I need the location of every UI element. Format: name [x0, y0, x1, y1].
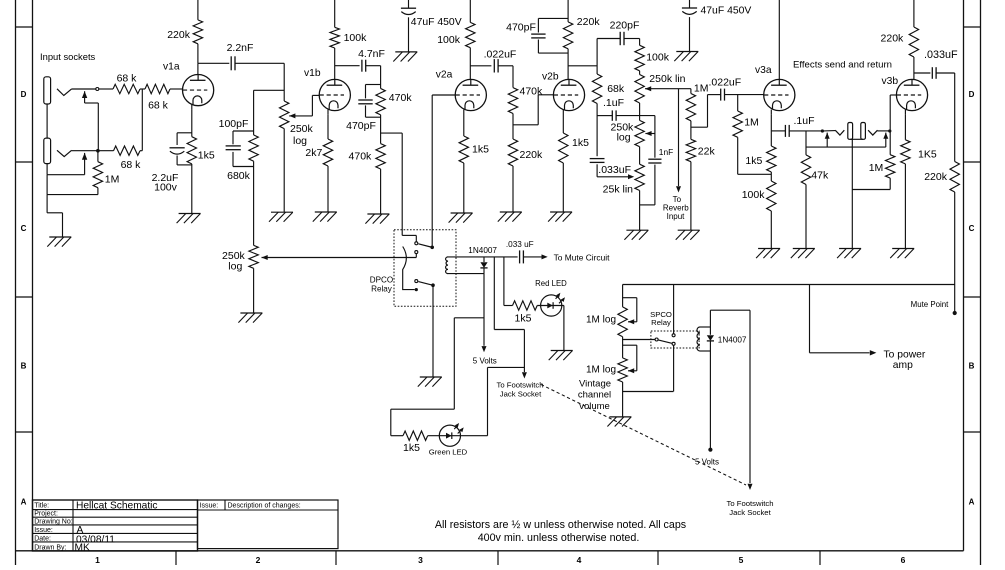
wire 100k to v2a plate node: [469, 48, 471, 80]
potentiometer 1M log upper wiper arrow: [628, 319, 637, 324]
wire 2k7 to ground: [327, 166, 329, 212]
wire 1k5 v2b to ground: [562, 163, 564, 212]
wire relay feed from 470k junction: [401, 133, 403, 235]
resistor 220k shunt: [508, 139, 517, 166]
input jack J2 tip contact: [57, 150, 72, 156]
wire green LED tap: [391, 318, 484, 436]
wire 68k to v1a grid: [170, 88, 183, 90]
bottom column tick x176: [175, 551, 177, 565]
wire 47uF cap2 to ground: [689, 17, 691, 51]
relay contact NC top: [415, 242, 418, 245]
wire SPCO to footswitch line: [710, 309, 750, 311]
wire 47k to ground: [805, 185, 807, 249]
title block outline: [33, 500, 339, 551]
svg-text:v3a: v3a: [755, 65, 772, 76]
wire v3b grid: [890, 95, 896, 130]
svg-text:47uF 450V: 47uF 450V: [411, 17, 462, 28]
svg-text:Drawn By:: Drawn By:: [34, 544, 66, 551]
svg-text:100k: 100k: [646, 52, 670, 64]
resistor 220k v3b plate: [909, 27, 918, 57]
capacitor 470pF bracket wires: [366, 85, 381, 118]
wire tone node to 220pF: [597, 38, 620, 40]
relay contact bottom: [415, 280, 418, 283]
diode 1N4007 SPCO: [707, 335, 714, 341]
triode v2a: [455, 79, 486, 114]
dashed footswitch linkage line: [541, 385, 746, 486]
wire 68k to .1uF node: [596, 104, 598, 157]
resistor 1k5 v2a cathode: [459, 136, 468, 163]
bottom border line: [16, 550, 964, 552]
wire dot to send contact: [824, 130, 835, 132]
svg-text:6: 6: [901, 555, 906, 565]
svg-text:v3b: v3b: [882, 76, 899, 87]
wire .022uF left: [708, 94, 721, 96]
ground 470k divider: [365, 214, 389, 224]
ground red LED: [549, 351, 573, 361]
capacitor 2.2uF 100v bypass: [170, 148, 185, 154]
svg-text:100pF: 100pF: [219, 118, 249, 130]
triode v1a: [183, 75, 214, 110]
resistor 220k v2b plate: [563, 22, 572, 49]
bottom column tick x820: [819, 551, 821, 565]
resistor 220k v1a plate: [193, 20, 202, 44]
wire send line to 47k: [805, 131, 807, 155]
svg-text:220k: 220k: [167, 29, 191, 41]
svg-text:47uF 450V: 47uF 450V: [701, 6, 752, 17]
ground relay common: [418, 377, 442, 387]
wire 1k5 v2a to ground: [463, 163, 465, 213]
capacitor 100pF bracket wires: [233, 131, 254, 167]
capacitor 470pF feedback bracket wires: [538, 18, 568, 53]
resistor 220k mute: [950, 162, 959, 193]
zone tick left y162: [16, 161, 33, 163]
svg-text:1M: 1M: [744, 117, 759, 129]
resistor 1M reverb mix: [686, 94, 695, 121]
wire 25k bottom to ground: [640, 191, 655, 231]
svg-text:C: C: [21, 224, 27, 233]
wire footswitch branch: [494, 257, 524, 330]
wire v2b cathode to 1k5: [562, 115, 564, 134]
node input B junction: [96, 149, 100, 153]
wire 470k to junction: [512, 114, 514, 140]
potentiometer 250k log channel track: [249, 245, 258, 268]
wire plate node to 4.7nF: [335, 65, 360, 67]
jack J1 switch contact arrow: [82, 91, 87, 103]
wire .1uF left: [597, 115, 612, 117]
ground v1b cathode: [313, 212, 337, 222]
wire rail to SPCO top contact: [673, 285, 675, 334]
svg-text:220k: 220k: [577, 16, 601, 28]
wire plate node to .022uF: [470, 65, 491, 67]
wire v2b plate to tone stack: [568, 39, 597, 75]
node Mute Point: [953, 311, 957, 315]
resistor 100k v3a cathode: [767, 181, 776, 211]
wire .1uF to send jack: [789, 130, 822, 132]
potentiometer 1M log lower bracket: [623, 345, 637, 371]
triode v1b: [319, 79, 350, 114]
svg-text:Drawing No:: Drawing No:: [34, 519, 73, 526]
wire B+ to 220k v2b: [567, 0, 569, 22]
wire lower 68k to junction: [140, 150, 142, 152]
svg-text:v1b: v1b: [304, 68, 321, 79]
wire red LED wire through: [537, 305, 564, 307]
svg-text:4: 4: [577, 555, 582, 565]
svg-text:4.7nF: 4.7nF: [358, 48, 385, 60]
wire 1M bottom to sleeve line: [47, 175, 98, 195]
svg-text:400v min. unless otherwise not: 400v min. unless otherwise noted.: [478, 532, 640, 544]
ground vintage volume: [607, 417, 631, 427]
svg-text:220k: 220k: [881, 33, 905, 45]
svg-text:2k7: 2k7: [305, 147, 322, 159]
svg-text:2: 2: [256, 555, 261, 565]
svg-text:68 k: 68 k: [148, 100, 169, 112]
relay bottom pole common: [431, 283, 435, 287]
wire 680k down to vintage pot: [253, 161, 255, 245]
capacitor .022uF v3a coupling: [721, 89, 725, 101]
svg-text:1M: 1M: [869, 162, 884, 174]
wire .1uF right to rail: [616, 115, 655, 117]
relay contact NO top: [415, 251, 418, 254]
relay top pole common: [430, 246, 434, 250]
arrow to power amp: [870, 350, 877, 355]
send jack tip contact: [835, 130, 844, 135]
capacitor 470pF feedback: [531, 34, 545, 38]
wire NO contact stub: [415, 254, 417, 258]
wire relay NC contact path: [402, 235, 416, 241]
svg-text:Relay: Relay: [651, 318, 671, 327]
svg-text:1M: 1M: [105, 173, 120, 185]
wire v2a grid from relay: [432, 95, 455, 246]
wire 220k shunt to ground: [512, 166, 514, 212]
svg-text:220k: 220k: [520, 149, 544, 161]
wire 1K5 to ground: [904, 164, 906, 249]
wire channel pot wiper to relay with arrow: [262, 255, 417, 260]
svg-text:1N4007: 1N4007: [718, 335, 747, 344]
wire 5 Volts feed with arrow: [482, 274, 487, 353]
resistor 68k input top-left: [113, 84, 140, 93]
wire 220k to v2b plate node: [567, 49, 569, 80]
border right outer line: [980, 0, 982, 565]
svg-text:Effects send and return: Effects send and return: [793, 60, 892, 71]
potentiometer 1M log lower track: [618, 358, 627, 382]
wire wiper line to 1M: [690, 89, 692, 94]
ground v3b cathode: [890, 249, 914, 259]
wire normalling common line: [806, 146, 886, 148]
capacitor 220pF treble: [620, 32, 624, 45]
wire junction to v2b grid: [513, 95, 554, 125]
triode v3a: [764, 79, 795, 114]
zone tick left y27: [16, 26, 33, 28]
wire .022uF to 470k chain: [498, 66, 513, 88]
wire J1 switch to node B: [85, 103, 99, 149]
resistor 100k treble: [635, 45, 644, 71]
ground 47k: [791, 249, 815, 259]
wire junction to relay feed: [381, 132, 403, 134]
effects return jack body: [861, 123, 866, 140]
DPCO relay coil: [446, 257, 448, 274]
wire 250klin join: [639, 71, 641, 121]
border left outer line: [15, 0, 17, 565]
wire 250klog to 25k: [639, 147, 641, 165]
input jack J2 body: [44, 138, 51, 164]
wire B+ to 220k v3b: [913, 0, 915, 27]
node input A (open): [96, 88, 99, 91]
svg-text:1M: 1M: [694, 82, 709, 94]
wire rail to power amp: [810, 285, 870, 353]
ground tone stack: [624, 230, 648, 240]
svg-text:v1a: v1a: [163, 61, 180, 72]
capacitor .033uF output: [932, 67, 936, 79]
svg-text:68 k: 68 k: [117, 72, 138, 84]
capacitor 47uF 450V first: [401, 8, 416, 14]
wire SPCO diode top: [709, 310, 711, 335]
wire B+ to 47uF cap2: [689, 0, 691, 8]
resistor 68k input top-right: [145, 84, 170, 93]
svg-text:220k: 220k: [924, 171, 948, 183]
svg-text:470pF: 470pF: [506, 21, 536, 33]
wire plate node down-left: [254, 90, 285, 135]
wire tone rail right side: [654, 116, 656, 205]
wire SPCO coil top: [700, 326, 710, 328]
svg-text:Relay: Relay: [371, 284, 393, 293]
wire 1k5 to 100k v3a: [770, 172, 772, 181]
svg-text:DPCO: DPCO: [370, 276, 393, 285]
relay bottom pole arm: [418, 282, 431, 285]
svg-text:5 Volts: 5 Volts: [473, 356, 497, 365]
ground gain pot: [269, 212, 293, 222]
resistor 1M input grid leak: [93, 162, 102, 188]
svg-text:amp: amp: [893, 360, 913, 371]
wire v3b cathode to 1K5: [904, 115, 906, 140]
svg-text:250k lin: 250k lin: [649, 73, 685, 85]
ground channel pot: [238, 313, 262, 323]
svg-text:Description of changes:: Description of changes:: [228, 502, 301, 509]
resistor 1k5 red LED: [513, 301, 538, 310]
wire footswitch2 down with arrow: [748, 310, 753, 490]
svg-text:MK: MK: [75, 542, 90, 553]
wire 47uF cap1 to ground: [408, 17, 410, 52]
svg-text:Project:: Project:: [34, 511, 58, 518]
wire v3a cathode down: [770, 115, 772, 146]
potentiometer 250k lin wiper arrow: [645, 86, 691, 91]
svg-text:22k: 22k: [698, 145, 716, 157]
wire to reverb with arrow: [676, 89, 681, 193]
zone tick right y27: [964, 26, 981, 28]
ground v1a cathode: [177, 214, 201, 224]
svg-text:C: C: [969, 224, 975, 233]
svg-text:.033uF: .033uF: [924, 49, 958, 61]
resistor 1K5 v3b cathode: [901, 140, 910, 164]
svg-text:.022uF: .022uF: [709, 77, 742, 89]
wire diode branch top: [483, 257, 485, 262]
svg-text:Jack Socket: Jack Socket: [729, 508, 771, 517]
potentiometer 1M log upper bracket: [623, 298, 637, 322]
diode 1N4007 DPCO: [480, 262, 487, 268]
svg-text:1k5: 1k5: [515, 313, 532, 325]
LED red channel indicator: [541, 293, 565, 316]
ground v2a cathode: [449, 213, 473, 223]
triode v2b: [553, 79, 584, 114]
wire mute cap line: [484, 256, 518, 258]
svg-text:47k: 47k: [811, 170, 829, 182]
svg-text:470k: 470k: [349, 151, 373, 163]
wire 1M bottom junction: [691, 95, 708, 140]
effects send jack body: [848, 123, 853, 140]
capacitor .033uF bass: [590, 159, 605, 163]
wire plate node to 2.2nF: [198, 62, 229, 64]
svg-text:250k: 250k: [290, 123, 314, 135]
svg-text:Input: Input: [667, 212, 686, 221]
SPCO arm: [658, 340, 672, 343]
wire v2a cathode to 1k5: [463, 115, 465, 137]
potentiometer 1M log upper track: [618, 307, 627, 337]
wire relay common to ground: [432, 287, 434, 377]
svg-text:680k: 680k: [227, 170, 251, 182]
wire jack sleeves: [850, 139, 863, 248]
svg-text:v2a: v2a: [436, 70, 453, 81]
svg-text:To Mute Circuit: To Mute Circuit: [554, 252, 611, 262]
wire wiper to v1b grid: [312, 95, 319, 116]
svg-text:D: D: [969, 90, 975, 99]
resistor 68k tone: [592, 74, 601, 104]
svg-text:470k: 470k: [389, 92, 413, 104]
wire SPCO diode bottom: [709, 341, 711, 449]
capacitor 100pF: [226, 146, 241, 150]
wire mute rail: [623, 284, 955, 286]
wire .022uF to v3a grid: [725, 94, 764, 96]
svg-text:1K5: 1K5: [918, 149, 937, 161]
zone tick right y432: [964, 431, 981, 433]
svg-text:Date:: Date:: [34, 535, 51, 542]
svg-text:470pF: 470pF: [346, 120, 376, 132]
svg-text:.033uF: .033uF: [598, 164, 631, 176]
resistor 68k input lower: [114, 146, 141, 155]
wire gain pot to ground: [283, 129, 285, 213]
svg-text:Issue:: Issue:: [200, 502, 219, 509]
wire 2.2nF to corner: [235, 63, 284, 101]
resistor 1M v3a grid leak: [733, 111, 742, 137]
relay link dot: [415, 288, 418, 291]
send jack switch arrow: [825, 133, 830, 148]
svg-text:log: log: [228, 261, 242, 273]
svg-text:470k: 470k: [520, 85, 544, 97]
wire 220k to v3b plate node: [913, 57, 915, 79]
zone tick left y432: [16, 431, 33, 433]
wire 100k v3a to ground: [770, 211, 772, 249]
wire J2 sleeve down: [47, 164, 85, 175]
resistor 2k7 v1b cathode: [323, 139, 332, 166]
wire plate node to .033uF: [914, 72, 931, 74]
svg-text:.1uF: .1uF: [603, 97, 624, 109]
wire coil top to diode line: [448, 256, 484, 258]
zone tick right y297: [964, 296, 981, 298]
wire green LED return: [428, 367, 525, 435]
ground v2b cathode: [548, 212, 572, 222]
svg-text:.033 uF: .033 uF: [506, 240, 534, 249]
input jack J1 tip contact: [57, 89, 72, 96]
resistor 47k send load: [801, 155, 810, 185]
bottom column tick x498: [497, 551, 499, 565]
ground v3a cathode: [756, 249, 780, 259]
capacitor .1uF send: [785, 125, 789, 137]
svg-text:1nF: 1nF: [659, 147, 673, 157]
svg-text:channel: channel: [578, 390, 611, 401]
DPCO relay dashed box: [394, 230, 456, 306]
wire node B to 1M: [97, 151, 99, 162]
SPCO contact right bottom: [672, 342, 675, 345]
wire v1a cathode to 1k5: [191, 110, 193, 137]
svg-text:1k5: 1k5: [403, 442, 420, 454]
SPCO relay dashed box: [651, 331, 699, 348]
wire node to 1M return: [889, 131, 891, 155]
capacitor .033uF mute: [520, 250, 524, 263]
wire diode branch bottom: [483, 268, 485, 273]
wire footswitch down with arrow: [522, 330, 527, 379]
wire 470k lower to ground: [380, 169, 382, 214]
svg-text:Green LED: Green LED: [429, 448, 468, 457]
ground 47uF first: [393, 52, 417, 62]
wire to 25k lin wiper with arrow: [597, 174, 634, 179]
svg-text:Mute Point: Mute Point: [911, 300, 950, 309]
ground 22k: [676, 230, 700, 240]
wire .033uF down and wiper arrow line: [596, 164, 598, 177]
return jack switch arrow: [883, 133, 888, 148]
capacitor 2.2nF coupling: [231, 56, 235, 70]
svg-text:5: 5: [739, 555, 744, 565]
resistor 1M return grid leak: [886, 155, 895, 178]
capacitor 2.2uF bracket wires: [177, 133, 192, 165]
svg-text:68 k: 68 k: [121, 159, 142, 171]
node send jack junction: [821, 129, 824, 132]
svg-text:25k lin: 25k lin: [603, 183, 634, 195]
zone tick left y297: [16, 296, 33, 298]
svg-text:2.2nF: 2.2nF: [227, 42, 254, 54]
svg-text:100k: 100k: [742, 189, 766, 201]
svg-text:3: 3: [418, 555, 423, 565]
resistor 470k lower: [376, 144, 385, 169]
capacitor .022uF coupling: [494, 59, 498, 72]
relay mechanical link arc: [403, 247, 415, 290]
wire between 68k resistors: [140, 88, 145, 90]
resistor 1k5 v3a cathode: [767, 146, 776, 172]
potentiometer 250k log (gain) wiper arrow: [289, 113, 312, 118]
svg-text:A: A: [21, 498, 27, 507]
svg-text:log: log: [293, 135, 307, 147]
svg-text:1k5: 1k5: [572, 137, 589, 149]
wire 220pF to 100k: [624, 39, 640, 46]
node 5 Volts SPCO: [708, 448, 712, 452]
svg-text:All resistors are ½ w unless o: All resistors are ½ w unless otherwise n…: [435, 519, 686, 531]
wire coil bottom to diode line: [448, 273, 484, 275]
svg-text:1M log: 1M log: [586, 315, 616, 326]
SPCO relay coil: [697, 327, 700, 351]
svg-text:1k5: 1k5: [472, 143, 489, 155]
wire 220k to v1a plate node: [197, 44, 199, 75]
input jack J1 body: [44, 77, 51, 104]
wire to mute circuit with arrow: [523, 254, 547, 259]
wire channel pot to ground: [253, 268, 255, 313]
wire rail to vintage pot1: [622, 285, 624, 307]
wire B+ to 47uF cap1: [408, 0, 410, 8]
potentiometer 250k log bass track: [635, 120, 644, 146]
resistor 680k: [249, 135, 258, 161]
wire 22k to ground: [690, 162, 692, 231]
svg-text:1: 1: [95, 555, 100, 565]
wire 4.7nF to 470k chain: [366, 66, 381, 89]
wire pot2 to ground: [623, 382, 674, 417]
svg-text:68k: 68k: [607, 83, 625, 95]
triode v3b: [896, 79, 927, 114]
